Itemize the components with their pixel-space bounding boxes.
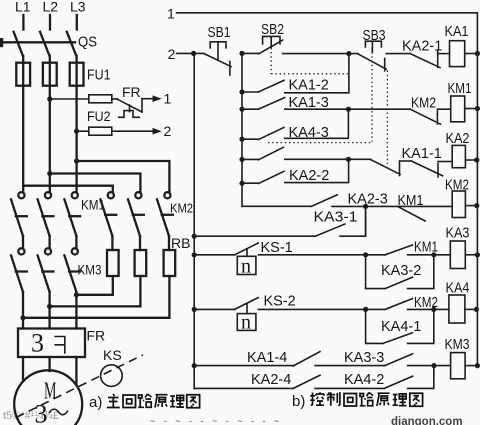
contact KA2-2 (NO) bbox=[242, 159, 349, 183]
node KA1-4 rail tap bbox=[192, 363, 197, 368]
thermal relay FR contact tick bbox=[129, 105, 131, 112]
wire KM2 pole3 to resistor RB3 bbox=[168, 236, 170, 250]
wire KM1 pole1 to KM3 pole1 bbox=[22, 236, 24, 248]
wire FR box to motor stub2 bbox=[48, 357, 50, 371]
pushbutton SB2 (NO) bbox=[259, 36, 283, 53]
svg-text:KA1-4: KA1-4 bbox=[247, 350, 287, 366]
wire KA2-3 row from rail242 bbox=[242, 205, 311, 207]
wire coil KM1 to rail bbox=[465, 108, 478, 110]
relay coil KA1 bbox=[450, 41, 465, 67]
switch QS blade pole3 bbox=[67, 32, 77, 56]
linkage dotted SB2 horizontal bbox=[271, 73, 349, 75]
svg-text:FR: FR bbox=[122, 84, 141, 100]
contact KA1-2 (NO) bbox=[242, 54, 349, 93]
contactor KM3 pole1 bbox=[11, 248, 27, 292]
wire riser x365 (206-235) bbox=[365, 206, 367, 236]
wire KM1 contact to coil KM2 bbox=[422, 205, 453, 207]
wire FU2 row feed bbox=[77, 130, 89, 132]
wire FR row feed bbox=[50, 98, 89, 100]
svg-text:t5®*#¹¼¾£: t5®*#¹¼¾£ bbox=[3, 410, 59, 422]
relay coil KA4 bbox=[449, 295, 465, 323]
relay coil KA2 bbox=[452, 145, 465, 167]
node coil KA2 rail bbox=[474, 157, 479, 162]
node riser KA1-2 top bbox=[346, 51, 351, 56]
contact KA2-4 (NO) bbox=[194, 375, 384, 388]
linkage dotted SB3 horizontal bbox=[268, 142, 372, 144]
contact SB3-linked second blade bbox=[371, 160, 400, 176]
svg-text:KS-1: KS-1 bbox=[261, 240, 293, 256]
svg-text:KA4-2: KA4-2 bbox=[344, 372, 384, 388]
linkage dotted SB3 seat down bbox=[386, 71, 388, 165]
node x433 KS1 row bbox=[431, 252, 436, 257]
node RB3 junction bbox=[20, 315, 25, 320]
wire KM1 to coil KA3 bbox=[408, 254, 451, 256]
resistor RB2 bbox=[135, 250, 147, 276]
svg-text:KA2-2: KA2-2 bbox=[289, 168, 329, 184]
wire KS-1 to KM1 contact bbox=[258, 254, 365, 256]
node riser x365 KS2 row bbox=[363, 307, 368, 312]
svg-text:RB: RB bbox=[171, 235, 190, 251]
svg-text:1: 1 bbox=[164, 91, 172, 107]
node tap phase3 to FU2 row bbox=[74, 129, 79, 134]
svg-text:KS: KS bbox=[103, 347, 122, 363]
pushbutton SB1 (NC) bbox=[204, 42, 231, 75]
wire KM2 NC to coil KM1 bbox=[437, 108, 450, 110]
switch QS linkage bar bbox=[2, 41, 75, 43]
wire bus 2 to SB1 bbox=[177, 52, 204, 54]
node KS-1 rail tap bbox=[192, 252, 197, 257]
svg-text:KA3-1: KA3-1 bbox=[314, 210, 358, 226]
pushbutton SB3 (NC) bbox=[358, 41, 386, 71]
wire RB3 return to phase1 bbox=[23, 276, 169, 318]
fuse FU2a body bbox=[89, 95, 112, 103]
node coil KA1 rail bbox=[475, 51, 480, 56]
arrow to node 1 bbox=[153, 95, 162, 102]
caption a hanzi bbox=[107, 394, 200, 408]
contactor KM1 pole1 bbox=[11, 192, 27, 236]
linkage dotted SB2 down bbox=[270, 48, 272, 74]
svg-text:L3: L3 bbox=[70, 0, 86, 15]
wire phase1 vertical (fuse to contact) bbox=[22, 56, 24, 192]
wire KM2 to coil KA4 bbox=[408, 308, 449, 310]
node rail242 top bbox=[239, 51, 244, 56]
contactor KM1 pole3 bbox=[64, 192, 80, 236]
svg-text:KA2: KA2 bbox=[446, 131, 470, 147]
svg-text:KM3: KM3 bbox=[78, 262, 102, 278]
svg-text:b): b) bbox=[292, 393, 305, 410]
contactor coil KM3 bbox=[451, 353, 466, 379]
wire KM1 pole3 to KM3 pole3 bbox=[75, 236, 77, 248]
wire KM2 pole1 to resistor RB1 bbox=[111, 236, 113, 250]
contact KA3-2 branch (NO) bbox=[366, 255, 434, 289]
node coil KM1 rail bbox=[475, 106, 480, 111]
wire FR box to motor stub3 bbox=[75, 357, 77, 385]
wire KS-2 row left bbox=[194, 308, 234, 310]
svg-text:KM1: KM1 bbox=[448, 81, 472, 97]
svg-text:FR: FR bbox=[87, 328, 106, 344]
svg-text:n: n bbox=[241, 256, 251, 278]
node rail195 top bbox=[191, 51, 196, 56]
wire KA4-2 riser bbox=[408, 366, 434, 389]
contactor coil KM2 bbox=[452, 191, 465, 218]
wire KA2-1 to coil KA1 bbox=[438, 53, 450, 55]
wire phase3 vertical bbox=[75, 56, 77, 192]
contact KA4-2 (NO) bbox=[384, 376, 412, 388]
wire L3 top stub bbox=[76, 15, 78, 30]
wire bus 1 and right rail bbox=[177, 13, 478, 366]
node KA4-3 rail tap bbox=[239, 137, 244, 142]
fuse FU1 pole1 bbox=[16, 63, 30, 86]
contactor KM2 pole1 bbox=[100, 192, 116, 236]
svg-text:KA4-1: KA4-1 bbox=[381, 319, 421, 335]
contactor KM2 pole3 bbox=[157, 192, 173, 236]
contact KS-2 (speed switch NO) bbox=[235, 298, 259, 334]
svg-text:SB1: SB1 bbox=[208, 25, 231, 41]
relay coil KA3 bbox=[450, 241, 465, 269]
wire phase2 vertical bbox=[49, 56, 51, 192]
svg-text:KA2-4: KA2-4 bbox=[251, 372, 291, 388]
contact KA3-3 (NO) bbox=[384, 354, 412, 366]
wire coil KA3 to rail bbox=[465, 254, 477, 256]
svg-text:KM2: KM2 bbox=[411, 96, 436, 112]
svg-text:KA1-2: KA1-2 bbox=[289, 78, 329, 94]
wire KS-2 to KM2 contact bbox=[258, 308, 385, 310]
speed switch KS circle bbox=[101, 365, 123, 387]
node KA3-1 rail tap bbox=[192, 234, 197, 239]
svg-text:SB2: SB2 bbox=[261, 22, 284, 38]
svg-text:~ - ~ - - ~ - ~ - - ~: ~ - ~ - - ~ - ~ - - ~ bbox=[150, 416, 282, 425]
svg-text:KM3: KM3 bbox=[445, 337, 470, 353]
wire coil KA1 to right rail bbox=[465, 53, 478, 55]
svg-text:SB3: SB3 bbox=[363, 28, 386, 44]
svg-text:L1: L1 bbox=[15, 0, 31, 15]
node KA1-2 rail tap bbox=[239, 89, 244, 94]
wire KS-1 row left bbox=[194, 254, 234, 256]
wire SB2 to SB3 bbox=[283, 53, 358, 55]
svg-text:KA3: KA3 bbox=[446, 226, 470, 242]
node coil KM2 rail bbox=[474, 203, 479, 208]
node coil KA3 rail bbox=[475, 252, 480, 257]
node SB3-linked rail tap bbox=[239, 157, 244, 162]
svg-text:KS-2: KS-2 bbox=[264, 294, 296, 310]
contact KA1-3 (NO) bbox=[242, 98, 410, 110]
svg-text:KA3-2: KA3-2 bbox=[381, 263, 421, 279]
linkage dotted SB3 down bbox=[371, 48, 373, 142]
wire KA1-1 to coil KA2 bbox=[438, 161, 452, 163]
svg-text:2: 2 bbox=[164, 123, 172, 139]
node KS-2 rail tap bbox=[192, 307, 197, 312]
wire SB3 to KA2-1 bbox=[386, 53, 410, 55]
wire coil KM3 to rail bbox=[465, 365, 477, 367]
svg-text:KA1: KA1 bbox=[445, 24, 469, 40]
wire FR box to motor stub1 bbox=[22, 357, 24, 381]
contact KA4-1 branch (NO) bbox=[366, 309, 434, 343]
resistor RB3 bbox=[164, 250, 176, 276]
resistor RB1 bbox=[107, 250, 119, 276]
svg-text:KM2: KM2 bbox=[170, 201, 193, 216]
contact KA4-3 (NO) bbox=[242, 109, 348, 139]
wire to KM1 blade bbox=[366, 254, 386, 256]
contact KM2 (NO, KA4 row) bbox=[385, 299, 412, 310]
contact KA1-4 (NO) bbox=[194, 352, 384, 366]
svg-text:3: 3 bbox=[31, 329, 44, 358]
contactor KM1 pole2 bbox=[38, 192, 54, 236]
thermal relay FR actuator hook bbox=[119, 111, 140, 118]
wire L1 top stub bbox=[22, 15, 24, 30]
svg-text:a): a) bbox=[89, 394, 102, 411]
svg-text:FU2: FU2 bbox=[87, 108, 111, 124]
fuse FU1 pole3 bbox=[70, 63, 84, 86]
node KA2-2 riser top bbox=[346, 157, 351, 162]
svg-text:KA4: KA4 bbox=[446, 281, 470, 297]
svg-text:KA4-3: KA4-3 bbox=[289, 125, 329, 141]
svg-text:FU1: FU1 bbox=[87, 67, 111, 84]
node tap phase2 to FR row bbox=[47, 96, 52, 101]
wire KM2 pole2 to resistor RB2 bbox=[139, 236, 141, 250]
fuse FU2 body bbox=[89, 127, 112, 135]
svg-text:KM1: KM1 bbox=[398, 193, 424, 209]
wire L2 top stub bbox=[49, 15, 51, 30]
wire phase1 lower vertical bbox=[22, 292, 24, 329]
wire FR contact to arrow 1 bbox=[142, 98, 154, 100]
svg-text:diangon.com: diangon.com bbox=[391, 416, 463, 425]
svg-text:KA2-1: KA2-1 bbox=[402, 39, 442, 55]
svg-text:2: 2 bbox=[168, 46, 176, 62]
node riser x365 top bbox=[363, 204, 368, 209]
fuse FU1 pole2 bbox=[43, 63, 57, 86]
node phase2 branch bbox=[47, 171, 52, 176]
node KA1-3 rail tap bbox=[239, 107, 244, 112]
wire KM1 pole2 to KM3 pole2 bbox=[48, 236, 50, 248]
wire phase3 lower vertical bbox=[75, 292, 77, 329]
wire SB1 to SB2 bbox=[242, 52, 259, 54]
wire coil KA4 to rail bbox=[465, 308, 477, 310]
contactor KM3 pole3 bbox=[64, 248, 80, 292]
watermark left logo bbox=[3, 410, 59, 422]
contactor KM2 pole2 bbox=[128, 192, 144, 236]
contact KM2 (NC, KM1 coil row) bbox=[410, 109, 440, 124]
contact KA1-1 (NC) bbox=[411, 161, 442, 177]
svg-text:QS: QS bbox=[78, 34, 97, 51]
shaft dashed link motor to KS bbox=[16, 355, 143, 418]
wire phase3 branch to KM2 pole3 bbox=[77, 161, 170, 192]
node coil KM3 rail bbox=[475, 363, 480, 368]
contact KM1 (NO, KA3 row) bbox=[385, 245, 412, 255]
wire phase2 lower vertical bbox=[48, 292, 50, 329]
contactor KM3 pole2 bbox=[38, 248, 54, 292]
node riser x365 KS1 row bbox=[363, 252, 368, 257]
wire FU2 to arrow 2 bbox=[112, 130, 154, 132]
caption b hanzi bbox=[310, 392, 422, 406]
wire riser x365 (254-288) bbox=[365, 255, 367, 289]
svg-text:n: n bbox=[241, 312, 251, 334]
contact KM1 (NO, KM2 coil row) bbox=[398, 206, 426, 221]
wire coil KM2 to rail bbox=[465, 205, 476, 207]
wire coil KA2 to rail bbox=[465, 159, 476, 161]
contact SB3-linked (NO, unlabeled) bbox=[242, 147, 371, 160]
switch QS handle bbox=[0, 38, 3, 47]
contact KS-1 (speed switch NO) bbox=[235, 243, 259, 278]
wire rail x242 bbox=[241, 53, 243, 206]
node coil KA4 rail bbox=[474, 307, 479, 312]
node RB1 junction bbox=[74, 292, 79, 297]
node phase3 branch bbox=[74, 158, 79, 163]
contact KA3-1 (NO) bbox=[194, 206, 365, 236]
thermal relay FR seat bar bbox=[141, 99, 143, 112]
svg-text:KA1-1: KA1-1 bbox=[402, 146, 442, 162]
node RB2 junction bbox=[47, 304, 52, 309]
svg-text:KM2: KM2 bbox=[445, 178, 469, 194]
svg-text:L2: L2 bbox=[43, 0, 59, 15]
contactor coil KM1 bbox=[451, 96, 465, 122]
wire left rail x195 bbox=[193, 53, 195, 388]
watermark bottom text bbox=[150, 416, 463, 425]
node KA2-2 rail tap bbox=[239, 181, 244, 186]
svg-text:KA1-3: KA1-3 bbox=[289, 95, 329, 111]
motor tilde bbox=[50, 409, 68, 415]
motor M circle bbox=[14, 370, 82, 425]
svg-text:KA3-3: KA3-3 bbox=[344, 350, 384, 366]
wire RB2 return to phase2 bbox=[50, 276, 141, 306]
switch QS blade pole1 bbox=[14, 32, 23, 56]
thermal relay FR heater hook glyph bbox=[55, 337, 65, 354]
wire KA3-3 to coil KM3 bbox=[408, 365, 451, 367]
contact KA2-3 (NO) bbox=[311, 195, 337, 207]
node x434 KA3-3 row bbox=[431, 363, 436, 368]
switch QS blade pole2 bbox=[40, 32, 50, 56]
wire to KA1-1 bbox=[400, 160, 412, 162]
thermal relay FR heater box bbox=[18, 329, 85, 358]
wire phase2 branch to KM2 pole2 bbox=[50, 174, 141, 193]
arrow to node 2 bbox=[153, 128, 162, 135]
node KA4-3 riser top bbox=[346, 107, 351, 112]
wire KA2-3 to KM1 contact bbox=[332, 205, 422, 207]
wire FU2a to FR contact bbox=[112, 98, 118, 100]
svg-text:1: 1 bbox=[167, 6, 175, 22]
wire phase1 branch to KM2 pole1 bbox=[23, 186, 113, 192]
wire RB1 return to phase3 bbox=[76, 276, 112, 295]
thermal relay FR contact blade bbox=[117, 99, 142, 112]
contact KA2-1 (NC) bbox=[410, 51, 440, 68]
node x433 KS2 row bbox=[431, 307, 436, 312]
